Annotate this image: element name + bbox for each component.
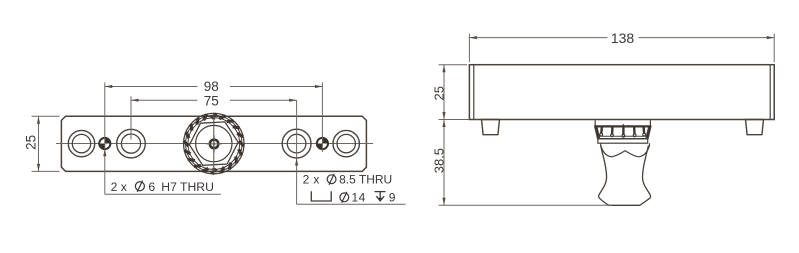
svg-text:2 x: 2 x	[111, 180, 127, 194]
svg-text:98: 98	[204, 79, 219, 94]
svg-text:8.5 THRU: 8.5 THRU	[339, 172, 392, 186]
svg-text:14: 14	[352, 191, 366, 205]
svg-text:H7 THRU: H7 THRU	[161, 180, 214, 194]
inner boss circle	[196, 125, 232, 161]
svg-text:2 x: 2 x	[303, 172, 320, 186]
knob side view: corner ticks	[595, 120, 650, 126]
depth symbol	[375, 192, 386, 201]
counterbored hole left (Ø8.5/Ø14)	[117, 129, 146, 158]
knob body (vase) outline	[599, 145, 651, 205]
counterbored hole far-left	[68, 130, 94, 156]
hexagon	[188, 121, 239, 166]
plate outline	[61, 116, 366, 171]
svg-text:138: 138	[611, 30, 635, 46]
knurled ring	[595, 126, 651, 138]
dimension 38.5	[439, 120, 612, 206]
counterbored hole far-right	[333, 130, 359, 156]
knurled knob top view: outer circle	[184, 113, 244, 173]
datum hole right (Ø6 H7)	[317, 138, 328, 149]
callout 2 leader underline	[297, 203, 406, 205]
dimension 25 (right view)	[439, 65, 469, 120]
ring inner back edge	[599, 135, 647, 137]
svg-text:75: 75	[204, 94, 219, 109]
callout 1 leader underline	[105, 193, 221, 195]
datum hole left (Ø6 H7)	[99, 138, 110, 149]
dimension 98	[105, 83, 323, 153]
dimension 138	[469, 34, 774, 63]
knurl band inner circles	[186, 115, 242, 171]
svg-text:6: 6	[148, 180, 155, 194]
inner edge lines	[474, 65, 770, 120]
svg-text:9: 9	[389, 191, 396, 205]
knob body (vase) wavy top	[601, 143, 650, 157]
body outline	[469, 65, 774, 120]
dimension 25 (left view)	[32, 116, 60, 171]
leader/extension through right Ø8.5 hole down to callout	[296, 100, 298, 204]
counterbore symbol	[311, 191, 331, 201]
arrow up to datum	[103, 149, 106, 157]
left foot	[482, 120, 500, 135]
right foot	[746, 120, 764, 135]
leader/extension through left datum down to callout	[104, 116, 106, 194]
diameter symbol	[135, 181, 144, 192]
svg-text:38.5: 38.5	[431, 148, 446, 173]
svg-text:25: 25	[431, 86, 446, 100]
horizontal centerline	[56, 143, 373, 145]
washer band	[598, 139, 648, 143]
knurl slash marks	[184, 114, 244, 174]
ribs	[601, 127, 644, 134]
dimension 75	[131, 96, 297, 139]
edge slant ribs	[596, 127, 649, 138]
diameter symbol	[340, 192, 349, 203]
center screw symbol	[206, 135, 221, 152]
counterbored hole right (Ø8.5/Ø14)	[282, 129, 311, 158]
svg-text:25: 25	[23, 135, 38, 150]
knob vertical centerline with arrows	[212, 112, 215, 175]
diameter symbol	[327, 174, 336, 185]
